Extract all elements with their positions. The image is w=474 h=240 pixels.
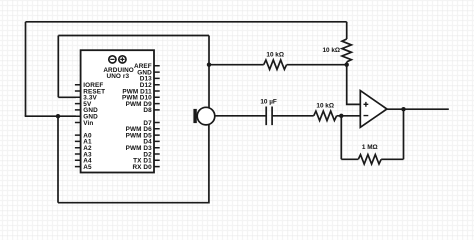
Arduino logo <box>109 56 126 63</box>
svg-text:10 kΩ: 10 kΩ <box>266 52 284 59</box>
pin stubs left <box>75 85 81 167</box>
wire capacitor to R3 <box>272 115 314 117</box>
wire feedback down from minus node <box>340 116 342 160</box>
resistor R4 1 MOhm feedback <box>358 155 381 164</box>
svg-text:Vin: Vin <box>83 120 93 127</box>
svg-text:10 kΩ: 10 kΩ <box>316 102 334 109</box>
op-amp U2 <box>360 91 387 128</box>
wire top rail drop to R2 <box>346 22 348 39</box>
wire R4 to output riser <box>381 158 403 160</box>
wire node B down to op-amp plus input <box>347 65 361 105</box>
wire R2 to node B <box>346 62 348 65</box>
wire R3 to op-amp minus input <box>337 115 361 117</box>
svg-text:RX D0: RX D0 <box>132 164 152 171</box>
wire ground branch down <box>57 116 59 203</box>
wire mic to capacitor <box>215 115 267 117</box>
microphone MK1 <box>193 107 214 125</box>
resistor R1 10 kOhm horizontal <box>264 60 287 69</box>
svg-text:A5: A5 <box>83 164 92 171</box>
wire R1 to node B <box>287 64 347 66</box>
svg-text:UNO r3: UNO r3 <box>106 73 129 80</box>
wire to GND pin <box>25 115 76 117</box>
wire inner top <box>58 35 209 37</box>
wire bottom <box>58 202 209 204</box>
svg-text:1 MΩ: 1 MΩ <box>362 144 378 151</box>
svg-text:10 kΩ: 10 kΩ <box>322 47 340 54</box>
wire mic top drop <box>208 65 210 112</box>
wire inner right drop <box>208 36 210 65</box>
wire output <box>386 108 449 110</box>
node junction output / feedback <box>401 107 405 111</box>
resistor R3 10 kOhm horizontal <box>314 111 337 120</box>
resistor R2 10 kOhm vertical <box>342 39 351 62</box>
wire 3.3V pin to left riser <box>58 96 76 98</box>
wire output riser <box>403 109 405 159</box>
Arduino U1 body <box>81 50 154 172</box>
svg-text:D8: D8 <box>143 107 152 114</box>
wire feedback to R4 <box>341 158 358 160</box>
wire mic bottom riser <box>208 120 210 204</box>
capacitor C1 10 uF <box>266 107 272 126</box>
wire outer left <box>25 22 27 116</box>
wire node to R1 <box>209 64 264 66</box>
node junction B (R1/R2/plus input) <box>345 62 349 66</box>
node junction GND-left <box>56 114 60 118</box>
node junction A (3.3V rail / mic top) <box>207 62 211 66</box>
node junction minus input / feedback <box>339 114 343 118</box>
pin stubs right <box>154 66 160 167</box>
wire outer top (5V rail top) <box>26 21 347 23</box>
svg-text:10 µF: 10 µF <box>260 98 277 105</box>
wire inner left riser <box>57 36 59 98</box>
